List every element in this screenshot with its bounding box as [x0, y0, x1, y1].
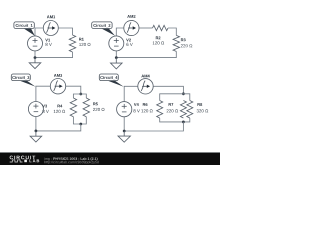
wire V4 bottom stem [123, 117, 125, 131]
node dot C4 top rail [182, 92, 185, 95]
wire AM3 right to feed corner [66, 86, 81, 94]
top rail C4 [160, 94, 190, 101]
CircuitLab logo text CIRCUIT [10, 156, 36, 160]
resistor R7 [180, 101, 186, 119]
bottom rail C4 [160, 118, 190, 122]
wire AM2 right to R2 left [139, 27, 153, 29]
wire V4 top to AM4 left [124, 86, 138, 101]
voltage source V4 [117, 102, 132, 117]
label R8 [198, 103, 203, 106]
label AM4 [141, 75, 149, 78]
label R1 [79, 38, 84, 41]
voltage source V2 [109, 36, 124, 51]
label R6 [143, 103, 148, 106]
ground C1 [34, 58, 36, 63]
label R2 [156, 36, 161, 39]
value 8 V [46, 43, 52, 46]
label V1 [45, 39, 50, 42]
node dot C4 bottom rail [182, 121, 185, 124]
resistor R3 [173, 35, 179, 51]
label V3 [42, 105, 47, 108]
resistor R5 [83, 98, 89, 117]
node junction dot C1 [34, 56, 37, 59]
label R4 [58, 105, 63, 108]
footer line 2 url [45, 161, 99, 164]
wire V1 top to AM1 left [35, 28, 43, 36]
flag node label Circuit_1 [23, 28, 34, 36]
label AM1 [47, 15, 55, 18]
value 120 ohm [54, 110, 65, 113]
flag node label Circuit_3 [19, 80, 36, 86]
ammeter AM4 [138, 79, 153, 94]
resistor R6 [157, 101, 163, 119]
label R3 [181, 38, 186, 41]
label AM3 [54, 74, 62, 77]
footer line 1 title [45, 157, 52, 160]
wire V3 top to AM3 left [36, 86, 51, 101]
value 120 ohm [79, 43, 90, 46]
value 6 V [126, 43, 132, 46]
value 320 ohm [197, 109, 209, 112]
label AM2 [127, 15, 135, 18]
ammeter AM2 [124, 20, 139, 35]
ground C2 [115, 58, 117, 64]
wire V2 top to AM2 left [116, 28, 124, 36]
resistor R2 (horizontal) [153, 25, 169, 30]
value 120 ohm [141, 109, 152, 112]
wire R2 right to R3 top [168, 28, 176, 35]
flag node label Circuit_2 [101, 28, 115, 36]
footer black bar [0, 153, 220, 165]
node junction dot C4 [123, 130, 126, 133]
CircuitLab logo text LAB [30, 159, 40, 162]
node dot C3 top rail [79, 93, 82, 96]
ammeter AM3 [50, 79, 65, 94]
node junction dot C2 [115, 56, 118, 59]
bottom rail C3 [73, 117, 86, 124]
value 8 V [134, 109, 140, 112]
wire drop to bottom wire C3 [36, 124, 81, 131]
node dot C3 bottom rail [79, 123, 82, 126]
label V2 [126, 39, 131, 42]
voltage source V1 [28, 36, 43, 51]
label R7 [169, 103, 174, 106]
resistor R8 [187, 101, 193, 119]
top rail C3 [73, 94, 86, 98]
voltage source V3 [28, 102, 43, 117]
wire AM4 right to feed corner [153, 86, 183, 94]
value 8 V [43, 110, 49, 113]
value 120 ohm [153, 41, 164, 44]
wire R3 bottom to junction [116, 51, 176, 57]
ground C3 [35, 131, 37, 136]
resistor R1 [69, 35, 75, 52]
node junction dot C3 [35, 130, 38, 133]
value 220 ohm [93, 108, 105, 111]
CircuitLab logo square wave [10, 160, 23, 162]
wire V1 bottom stem [34, 51, 36, 58]
wire AM1 right to R1 top [58, 28, 72, 35]
ammeter AM1 [43, 21, 58, 36]
label V4 [134, 103, 139, 106]
wire V3 bottom stem [35, 117, 37, 131]
ground C4 [123, 131, 125, 136]
resistor R4 [70, 98, 76, 117]
value 220 ohm [181, 44, 193, 47]
wire V2 bottom stem [115, 51, 117, 58]
wire R1 bottom to junction [35, 52, 73, 58]
value 220 ohm [167, 109, 179, 112]
wire drop to bottom wire C4 [124, 122, 183, 131]
label R5 [93, 103, 98, 106]
flag node label Circuit_4 [107, 80, 124, 86]
